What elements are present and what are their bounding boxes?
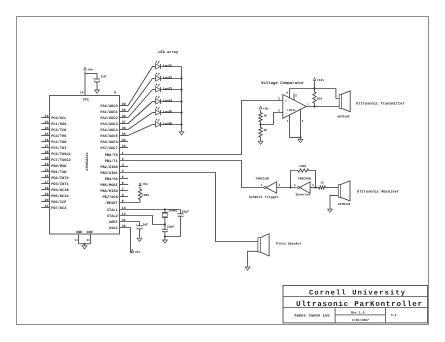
svg-text:8: 8 [122,193,124,198]
svg-text:Schmitt Trigger: Schmitt Trigger [249,195,279,199]
inverter U4 74HC04N [294,177,314,197]
svg-text:Led5: Led5 [163,110,173,115]
svg-text:PC1/SDA: PC1/SDA [51,122,67,127]
svg-text:10: 10 [80,90,84,94]
LM311 pin 5 stub [294,94,297,101]
svg-text:1: 1 [122,151,124,156]
svg-text:74HC04N: 74HC04N [298,177,311,181]
svg-text:31: 31 [86,239,90,242]
wire PB1/T1 to Schmitt trigger output [120,161,264,188]
svg-text:8: 8 [286,92,288,95]
svg-text:4: 4 [261,184,263,187]
wire PB3/AIN1 to piezo speaker [120,173,258,242]
svg-text:PD1/TXD: PD1/TXD [51,170,67,175]
speaker piezo [258,234,302,256]
ground below piezo [245,266,250,270]
svg-text:29: 29 [45,156,49,161]
svg-text:PD5/OC1A: PD5/OC1A [51,194,69,199]
svg-text:PB4/SS: PB4/SS [105,177,119,182]
U1 left pins PC0-PC7 PD0-PD7 with pin numbers [41,114,49,209]
capacitor 22pF right [178,210,189,237]
svg-text:1/1: 1/1 [391,313,397,317]
+12v supply [313,78,324,89]
op-amp U2 LM311 comparator [283,94,306,118]
resistor 1k upper [259,110,267,125]
wire LM311 output pin 7 [306,103,339,107]
svg-text:21: 21 [45,204,49,209]
svg-text:+5v: +5v [263,107,269,111]
svg-text:16: 16 [45,174,49,179]
svg-text:7: 7 [122,187,124,192]
ground below LM311 [298,138,303,142]
wire PB0/T0 to comparator + input [120,101,283,155]
svg-text:PD3/INT1: PD3/INT1 [51,182,69,187]
wire /RESET pin 9 [120,202,141,204]
svg-text:PC2/TCK: PC2/TCK [51,128,67,133]
resistor 300 pull-up [313,89,322,107]
LM311 pin 8 stub [286,89,289,98]
svg-text:22: 22 [45,114,49,119]
svg-text:PD2/INT0: PD2/INT0 [51,176,68,181]
svg-text:/RESET: /RESET [105,201,119,206]
LM311 pin 2 label [278,97,280,100]
svg-text:PB6/MISO: PB6/MISO [100,189,118,194]
svg-text:1k: 1k [320,181,324,185]
+5v at AVCC [131,250,140,255]
svg-text:24: 24 [45,126,49,131]
svg-text:2: 2 [278,97,280,100]
svg-text:9: 9 [122,199,124,204]
svg-text:PD0/RXD: PD0/RXD [51,164,67,169]
svg-text:Led4: Led4 [163,99,173,104]
svg-text:38: 38 [122,114,126,119]
inverter U3 74HC14N Schmitt Trigger [249,177,281,199]
svg-text:1uF: 1uF [101,75,107,79]
wire XTAL1 to right cap [180,210,182,212]
svg-text:11: 11 [74,239,78,242]
svg-text:16MHZ: 16MHZ [168,209,177,213]
wire LM311 gnd pins joined [290,136,302,138]
title block [283,286,428,323]
wire receiver to ground [330,195,338,208]
svg-text:+12v: +12v [317,78,325,82]
svg-text:PC4/TDO: PC4/TDO [51,140,67,145]
svg-text:+: + [285,99,287,103]
wire +12v rail [290,87,336,89]
svg-text:Voltage Comparator: Voltage Comparator [261,81,305,86]
svg-text:PA2/ADC2: PA2/ADC2 [100,116,117,121]
svg-text:33: 33 [122,144,126,149]
wire divider to comparator - input [261,113,283,125]
svg-text:3: 3 [278,184,280,187]
svg-text:39: 39 [122,108,126,113]
svg-text:LED array: LED array [158,50,179,55]
U1 GND pins 11 and 31 joined [74,234,90,245]
svg-text:ATMEGA32L: ATMEGA32L [85,152,90,170]
svg-text:Led6: Led6 [163,122,173,127]
svg-text:4/30/2007: 4/30/2007 [352,318,369,322]
svg-text:4: 4 [122,169,124,174]
svg-text:40TR16F: 40TR16F [337,115,350,119]
svg-text:23: 23 [45,120,49,125]
svg-text:32: 32 [122,218,126,223]
svg-text:+5v: +5v [142,182,148,186]
svg-text:4: 4 [302,120,304,123]
LM311 pin 3 label [278,110,280,113]
svg-text:2: 2 [122,157,124,162]
LED Led5 with wire from PA4 [128,107,181,130]
crystal 16MHZ [162,209,178,225]
svg-text:19: 19 [45,192,49,197]
svg-text:Ultrasonic Transmitter: Ultrasonic Transmitter [356,101,405,106]
capacitor 22pF left [162,224,174,236]
IC U1 ATMEGA32L microcontroller [50,91,120,235]
svg-text:XTAL2: XTAL2 [107,214,118,219]
wire inverter input node [310,187,317,189]
svg-text:GND: GND [76,230,82,235]
LED bus wire [180,67,182,131]
svg-text:37: 37 [122,120,126,125]
svg-text:VCC: VCC [83,98,89,103]
svg-text:PB2/AIN0: PB2/AIN0 [100,165,117,170]
svg-text:PC6/TOSC1: PC6/TOSC1 [51,152,71,157]
svg-text:7: 7 [307,103,309,106]
svg-text:26: 26 [45,138,49,143]
svg-text:PA0/ADC0: PA0/ADC0 [100,104,117,109]
capacitor 1uF at AREF [136,222,149,237]
LED Led1 with wire from PA0 [128,61,181,106]
svg-text:6: 6 [122,181,124,186]
ground below crystal caps [163,239,168,243]
svg-text:AREF: AREF [109,220,118,225]
svg-text:34: 34 [122,138,126,143]
ground below LED bus [179,131,184,135]
svg-text:14: 14 [45,162,49,167]
+5v at divider [259,106,268,110]
svg-text:15: 15 [45,168,49,173]
svg-text:1uF: 1uF [142,222,148,226]
svg-text:13: 13 [122,206,126,211]
ground below receiver [328,208,333,212]
svg-text:40TR16F: 40TR16F [338,202,351,206]
LED Led6 with wire from PA5 [128,119,181,136]
svg-text:5: 5 [122,175,124,180]
capacitor C1 1uF [92,74,106,89]
svg-text:Led2: Led2 [163,76,173,81]
svg-text:74HC14N: 74HC14N [255,177,268,181]
svg-text:25: 25 [45,132,49,137]
LED Led3 with wire from PA2 [128,84,181,118]
svg-text:12: 12 [122,212,126,217]
svg-text:22pF: 22pF [182,210,189,214]
svg-text:LM311: LM311 [287,109,296,112]
svg-text:PA7/ADC7: PA7/ADC7 [100,146,117,151]
wire piezo to ground [248,251,258,265]
LED Led2 with wire from PA1 [128,73,181,112]
U1 right pin stubs and pin numbers [120,102,129,229]
svg-text:1k: 1k [263,128,267,132]
svg-text:300: 300 [317,97,323,101]
svg-text:PC3/TMS: PC3/TMS [51,134,67,139]
svg-text:AVCC: AVCC [109,226,119,231]
svg-text:PA6/ADC6: PA6/ADC6 [100,140,117,145]
svg-text:3: 3 [312,184,314,187]
wire rail to transmitter [336,89,339,99]
svg-text:4: 4 [294,184,296,187]
svg-text:35: 35 [122,132,126,137]
wire VCC pin 10 to +5v [80,71,85,95]
resistor 100k reset pull-up [138,186,149,202]
svg-text:Led3: Led3 [163,87,173,92]
svg-text:PA4/ADC4: PA4/ADC4 [100,128,118,133]
svg-text:PB0/T0: PB0/T0 [105,153,118,158]
wire AVCC pin 30 to +5v [120,228,133,253]
svg-text:28: 28 [45,150,49,155]
svg-text:XTAL1: XTAL1 [107,208,119,213]
wire XTAL2 pin 12 [120,216,166,226]
svg-text:PC5/TDI: PC5/TDI [51,146,66,151]
svg-text:1k: 1k [263,113,267,117]
svg-text:20: 20 [45,198,49,203]
svg-text:PD6/ICP: PD6/ICP [51,200,67,205]
svg-text:PD7/OC2: PD7/OC2 [51,206,66,211]
wire AREF pin 32 [120,222,140,225]
svg-text:PC7/TOSC2: PC7/TOSC2 [51,158,71,163]
svg-text:Ultrasonic ParKontroller: Ultrasonic ParKontroller [296,300,423,309]
speaker ultrasonic transmitter 40TR16F [337,91,404,119]
wire XTAL1 pin 13 [120,208,181,210]
svg-text:PA5/ADC5: PA5/ADC5 [100,134,117,139]
svg-text:PC0/SCL: PC0/SCL [51,116,66,121]
wire 1k to receiver [327,187,339,189]
resistor 1k receiver [318,181,327,189]
svg-text:Led1: Led1 [163,64,173,69]
svg-text:+5v: +5v [87,67,93,71]
node divider mid [259,123,261,125]
svg-text:James Juwon Lee: James Juwon Lee [294,313,331,318]
wire schmitt input to inverter output [277,186,297,188]
svg-text:PD4/OC1B: PD4/OC1B [51,188,69,193]
svg-text:PA1/ADC1: PA1/ADC1 [100,110,118,115]
svg-text:Ultrasonic Receiver: Ultrasonic Receiver [357,189,399,194]
svg-text:GND: GND [87,230,93,235]
svg-text:PB7/SCK: PB7/SCK [103,195,119,200]
svg-text:1: 1 [287,120,289,123]
svg-text:Inverter: Inverter [295,193,311,197]
svg-text:Piezo Speaker: Piezo Speaker [276,241,301,245]
wire caps to ground [164,235,181,238]
svg-text:5: 5 [295,95,297,98]
svg-text:40: 40 [122,102,126,107]
svg-text:Rev 1.0: Rev 1.0 [351,310,364,314]
+5v at reset pull-up [139,182,148,186]
svg-text:22pF: 22pF [167,224,174,228]
svg-text:PA3/ADC3: PA3/ADC3 [100,122,117,127]
svg-text:27: 27 [45,144,49,149]
ground below divider [258,140,263,144]
LM311 pin 4 stub [301,109,304,137]
svg-text:+: + [92,77,94,80]
svg-text:PB5/MOSI: PB5/MOSI [100,183,117,188]
svg-text:3: 3 [278,110,280,113]
svg-text:100k: 100k [142,193,149,197]
svg-text:PB1/T1: PB1/T1 [105,159,119,164]
svg-text:18: 18 [45,186,49,191]
wire +5v to capacitor C1 [85,73,97,75]
resistor 100k feedback [291,164,317,189]
Voltage Comparator title [261,81,305,86]
ground below AREF cap [137,237,142,241]
svg-text:U: U [114,91,116,96]
LM311 pin 1 stub [287,115,290,138]
svg-text:+5v: +5v [135,250,141,254]
speaker ultrasonic receiver 40TR16F [338,181,399,206]
svg-text:17: 17 [45,180,49,185]
svg-text:30: 30 [122,224,126,229]
svg-text:100k: 100k [299,164,306,168]
svg-text:36: 36 [122,126,126,131]
svg-text:Cornell University: Cornell University [309,288,406,297]
ground below C1 [95,89,100,93]
LED Led4 with wire from PA3 [128,96,181,124]
+5v supply at VCC [84,67,94,71]
ground below U1 [82,245,87,249]
LED array title [158,50,179,55]
svg-text:3: 3 [122,163,124,168]
resistor 1k lower [259,125,267,141]
svg-text:PB3/AIN1: PB3/AIN1 [100,171,118,176]
